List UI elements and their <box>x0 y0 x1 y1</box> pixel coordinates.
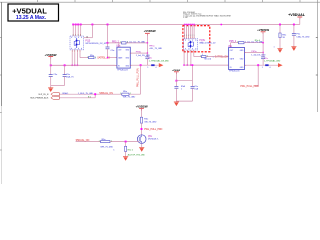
svg-text:ALLTOP_TR5_08D: ALLTOP_TR5_08D <box>128 154 146 157</box>
svg-text:13.25 A Max.: 13.25 A Max. <box>16 15 47 21</box>
svg-text:4: 4 <box>269 67 270 69</box>
svg-text:+V5DUAL: +V5DUAL <box>288 13 306 17</box>
svg-text:1: 1 <box>87 57 88 59</box>
svg-text:OUT: OUT <box>230 50 233 52</box>
svg-text:1: 1 <box>120 42 121 44</box>
svg-text:1_UL_UL_75_08D: 1_UL_UL_75_08D <box>127 42 146 44</box>
svg-text:1_bd_D5_08D: 1_bd_D5_08D <box>251 54 266 56</box>
svg-text:1: 1 <box>111 140 112 142</box>
svg-text:OUT: OUT <box>118 50 121 52</box>
svg-text:SLP_S5_N: SLP_S5_N <box>38 94 48 96</box>
svg-text:1: 1 <box>130 93 131 95</box>
svg-text:PR5_2: PR5_2 <box>112 41 120 43</box>
svg-text:R5x: R5x <box>149 57 153 59</box>
svg-text:PQ5: PQ5 <box>85 39 90 42</box>
svg-text:1_TP5DUAL_D8_08D: 1_TP5DUAL_D8_08D <box>149 59 170 62</box>
svg-text:WR_75_08D: WR_75_08D <box>123 96 136 98</box>
svg-text:TPS2bxxG: TPS2bxxG <box>229 71 240 73</box>
svg-text:1: 1 <box>202 54 203 56</box>
svg-text:1: 1 <box>274 46 275 48</box>
svg-text:+6A_75: +6A_75 <box>66 75 74 78</box>
svg-text:14: 14 <box>86 36 88 38</box>
svg-text:S5DUAL_ON: S5DUAL_ON <box>99 92 113 95</box>
svg-text:1: 1 <box>120 93 121 95</box>
svg-text:PWL_PULL_PDN: PWL_PULL_PDN <box>136 68 139 87</box>
svg-text:S5DUAL_ON: S5DUAL_ON <box>76 139 90 142</box>
svg-text:C5A_75_08D: C5A_75_08D <box>296 35 310 38</box>
svg-text:PR5x: PR5x <box>251 51 257 53</box>
svg-text:+RL_75_08D: +RL_75_08D <box>149 48 162 50</box>
svg-text:1: 1 <box>200 55 201 57</box>
svg-text:C: min=22 (x) 470OHM/470UF/6V: C: min=22 (x) 470OHM/470UF/6V MAX: 82/47… <box>183 14 231 17</box>
svg-text:SUS_PWRDN_ACK: SUS_PWRDN_ACK <box>30 97 49 100</box>
svg-text:1_TP5DUAL_08D: 1_TP5DUAL_08D <box>264 60 281 63</box>
svg-text:1: 1 <box>95 57 96 59</box>
svg-text:2N7002LT,: 2N7002LT, <box>148 139 159 141</box>
svg-text:1: 1 <box>237 41 238 43</box>
svg-text:GB_75_08D: GB_75_08D <box>144 121 156 123</box>
svg-text:WR_75_08D: WR_75_08D <box>100 146 113 148</box>
svg-text:PWL_PULL_PDN: PWL_PULL_PDN <box>144 129 162 131</box>
svg-text:1: 1 <box>99 140 100 142</box>
svg-text:R5x 1: R5x 1 <box>128 150 134 152</box>
svg-text:WPD09D5D5_D2_4P: WPD09D5D5_D2_4P <box>85 43 107 45</box>
svg-text:PR5_2: PR5_2 <box>229 41 237 43</box>
svg-text:WALLDOND5_D2: WALLDOND5_D2 <box>199 42 216 45</box>
svg-text:1: 1 <box>207 55 208 57</box>
svg-text:1: 1 <box>147 67 148 69</box>
svg-text:TPS2bxxG: TPS2bxxG <box>117 69 128 71</box>
svg-text:R5x 0: R5x 0 <box>255 40 261 42</box>
svg-text:R5x: R5x <box>264 58 268 60</box>
svg-text:+V5DSW: +V5DSW <box>144 29 156 33</box>
svg-text:4: 4 <box>155 67 156 69</box>
svg-text:TM_5nd: TM_5nd <box>204 58 211 60</box>
svg-text:1: 1 <box>127 42 128 44</box>
svg-text:1: 1 <box>262 67 263 69</box>
svg-text:1_RL5_75_08D: 1_RL5_75_08D <box>78 93 94 95</box>
svg-text:PR5x: PR5x <box>136 52 142 54</box>
svg-text:PWL_PULL_PDN: PWL_PULL_PDN <box>240 86 258 88</box>
svg-text:R5A 1: R5A 1 <box>63 92 70 95</box>
